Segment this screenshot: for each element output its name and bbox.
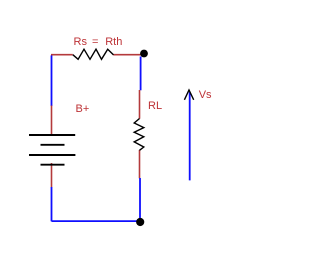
svg-text:RL: RL	[148, 100, 162, 112]
svg-text:Rth: Rth	[105, 36, 122, 48]
svg-text:=: =	[92, 36, 98, 48]
svg-text:B+: B+	[76, 103, 90, 115]
svg-text:Rs: Rs	[74, 36, 88, 48]
svg-text:Vs: Vs	[199, 89, 212, 101]
